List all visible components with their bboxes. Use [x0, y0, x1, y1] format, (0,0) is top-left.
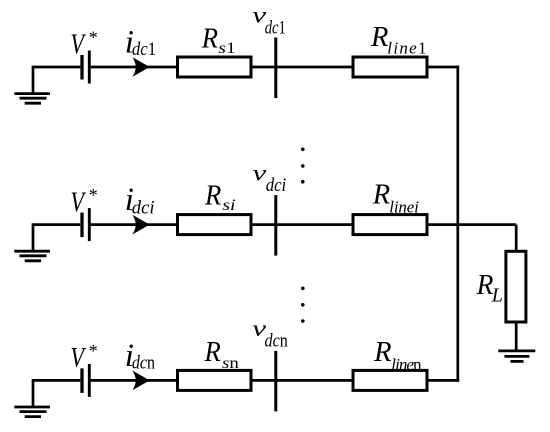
- svg-text:*: *: [89, 28, 98, 48]
- svg-text:dci: dci: [266, 175, 287, 196]
- svg-text:*: *: [89, 341, 98, 361]
- svg-text:R: R: [370, 22, 388, 53]
- svg-text:dc1: dc1: [265, 18, 286, 39]
- svg-text:*: *: [89, 185, 98, 205]
- svg-text:line1: line1: [387, 39, 426, 58]
- svg-text:dcn: dcn: [265, 331, 289, 352]
- svg-text:R: R: [373, 337, 391, 368]
- svg-text:R: R: [372, 179, 390, 210]
- svg-text:L: L: [491, 285, 503, 307]
- svg-text:linen: linen: [391, 355, 422, 374]
- svg-text:sn: sn: [222, 355, 239, 372]
- svg-text:s1: s1: [218, 40, 236, 57]
- svg-text:dc1: dc1: [132, 40, 156, 60]
- svg-text:R: R: [476, 270, 494, 301]
- svg-text:dcn: dcn: [132, 354, 155, 374]
- svg-text:R: R: [204, 337, 221, 368]
- svg-text:dci: dci: [132, 198, 155, 218]
- svg-text:R: R: [204, 181, 221, 212]
- svg-text:V: V: [70, 343, 86, 374]
- svg-text:R: R: [201, 23, 218, 54]
- svg-text:V: V: [70, 29, 86, 60]
- svg-text:linei: linei: [389, 197, 419, 216]
- svg-text:si: si: [222, 197, 235, 214]
- svg-text:V: V: [70, 188, 86, 219]
